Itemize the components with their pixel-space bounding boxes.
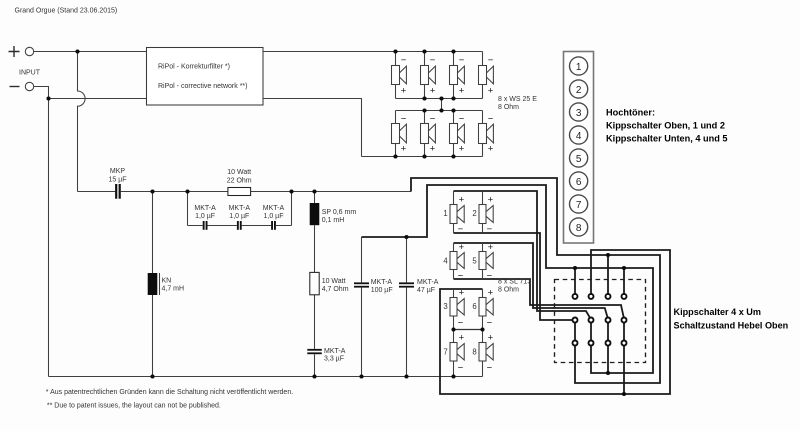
svg-text:−: − bbox=[487, 363, 493, 374]
svg-text:8: 8 bbox=[576, 223, 582, 234]
svg-text:7: 7 bbox=[443, 347, 447, 356]
svg-text:100 µF: 100 µF bbox=[371, 287, 393, 294]
svg-text:+: + bbox=[488, 287, 494, 298]
svg-text:+: + bbox=[459, 194, 465, 205]
svg-text:Kippschalter Unten, 4 und 5: Kippschalter Unten, 4 und 5 bbox=[606, 133, 728, 143]
svg-text:3: 3 bbox=[443, 302, 447, 311]
svg-text:2: 2 bbox=[472, 209, 476, 218]
svg-text:INPUT: INPUT bbox=[19, 70, 41, 77]
svg-text:MKT-A: MKT-A bbox=[417, 279, 439, 286]
svg-text:−: − bbox=[488, 55, 494, 66]
svg-text:0,1 mH: 0,1 mH bbox=[322, 217, 345, 224]
svg-text:+: + bbox=[430, 144, 436, 155]
svg-text:1,0 µF: 1,0 µF bbox=[195, 213, 215, 220]
svg-text:MKT-A: MKT-A bbox=[194, 205, 216, 212]
svg-text:+: + bbox=[488, 332, 494, 343]
svg-text:Schaltzustand Hebel Oben: Schaltzustand Hebel Oben bbox=[674, 321, 789, 331]
svg-text:1: 1 bbox=[576, 62, 582, 73]
svg-text:* Aus patentrechtlichen Gründe: * Aus patentrechtlichen Gründen kann die… bbox=[46, 389, 293, 396]
svg-text:−: − bbox=[459, 55, 465, 66]
svg-text:4,7 mH: 4,7 mH bbox=[162, 286, 185, 293]
svg-text:2: 2 bbox=[576, 85, 582, 96]
svg-text:SP 0,6 mm: SP 0,6 mm bbox=[322, 209, 357, 216]
svg-text:−: − bbox=[487, 318, 493, 329]
svg-text:−: − bbox=[487, 224, 493, 235]
svg-text:+: + bbox=[430, 85, 436, 96]
svg-text:5: 5 bbox=[472, 257, 477, 266]
svg-text:8: 8 bbox=[472, 347, 476, 356]
svg-text:3,3 µF: 3,3 µF bbox=[324, 356, 344, 363]
svg-text:−: − bbox=[458, 270, 464, 281]
svg-text:−: − bbox=[430, 55, 436, 66]
svg-text:22 Ohm: 22 Ohm bbox=[227, 177, 252, 184]
svg-text:+: + bbox=[459, 332, 465, 343]
svg-text:3: 3 bbox=[576, 108, 582, 119]
svg-text:KN: KN bbox=[162, 278, 172, 285]
svg-text:1: 1 bbox=[443, 209, 447, 218]
svg-text:+: + bbox=[401, 144, 407, 155]
svg-text:4: 4 bbox=[443, 257, 448, 266]
svg-text:MKT-A: MKT-A bbox=[371, 279, 393, 286]
svg-text:+: + bbox=[401, 85, 407, 96]
svg-text:MKT-A: MKT-A bbox=[263, 205, 285, 212]
svg-text:MKT-A: MKT-A bbox=[324, 348, 346, 355]
svg-text:+: + bbox=[488, 85, 494, 96]
svg-text:MKP: MKP bbox=[110, 168, 126, 175]
svg-text:8 Ohm: 8 Ohm bbox=[498, 104, 519, 111]
svg-text:RiPol - Korrekturfilter *): RiPol - Korrekturfilter *) bbox=[158, 64, 230, 71]
svg-text:1,0 µF: 1,0 µF bbox=[229, 213, 249, 220]
svg-text:Kippschalter 4 x Um: Kippschalter 4 x Um bbox=[674, 307, 761, 317]
svg-text:1,0 µF: 1,0 µF bbox=[264, 213, 284, 220]
svg-text:10 Watt: 10 Watt bbox=[227, 169, 251, 176]
svg-text:4,7 Ohm: 4,7 Ohm bbox=[322, 286, 349, 293]
svg-text:8 x WS 25 E: 8 x WS 25 E bbox=[498, 96, 537, 103]
svg-text:15 µF: 15 µF bbox=[108, 177, 126, 184]
svg-text:47 µF: 47 µF bbox=[417, 287, 435, 294]
svg-text:−: − bbox=[458, 363, 464, 374]
svg-text:−: − bbox=[488, 113, 494, 124]
svg-text:−: − bbox=[458, 318, 464, 329]
svg-text:5: 5 bbox=[576, 154, 582, 165]
svg-text:7: 7 bbox=[576, 200, 582, 211]
svg-text:Grand Orgue (Stand 23.06.2015): Grand Orgue (Stand 23.06.2015) bbox=[15, 8, 118, 15]
svg-text:4: 4 bbox=[576, 131, 582, 142]
svg-text:+: + bbox=[488, 144, 494, 155]
svg-text:** Due to patent issues, the l: ** Due to patent issues, the layout can … bbox=[47, 403, 221, 410]
svg-text:Kippschalter Oben, 1 und 2: Kippschalter Oben, 1 und 2 bbox=[606, 121, 725, 131]
svg-text:−: − bbox=[487, 270, 493, 281]
svg-text:8 Ohm: 8 Ohm bbox=[498, 287, 519, 294]
svg-text:−: − bbox=[458, 224, 464, 235]
svg-text:6: 6 bbox=[472, 302, 476, 311]
svg-text:+: + bbox=[459, 287, 465, 298]
svg-text:RiPol - corrective network **): RiPol - corrective network **) bbox=[158, 83, 247, 90]
svg-text:+: + bbox=[488, 242, 494, 253]
svg-text:+: + bbox=[459, 85, 465, 96]
svg-text:−: − bbox=[401, 113, 407, 124]
svg-text:−: − bbox=[430, 113, 436, 124]
svg-text:+: + bbox=[459, 242, 465, 253]
svg-text:−: − bbox=[459, 113, 465, 124]
svg-text:MKT-A: MKT-A bbox=[229, 205, 251, 212]
svg-text:10 Watt: 10 Watt bbox=[322, 278, 346, 285]
svg-text:+: + bbox=[459, 144, 465, 155]
svg-text:6: 6 bbox=[576, 177, 582, 188]
svg-text:+: + bbox=[488, 194, 494, 205]
svg-text:−: − bbox=[401, 55, 407, 66]
svg-text:8 x SL 713: 8 x SL 713 bbox=[498, 279, 531, 286]
svg-text:Hochtöner:: Hochtöner: bbox=[606, 108, 655, 118]
